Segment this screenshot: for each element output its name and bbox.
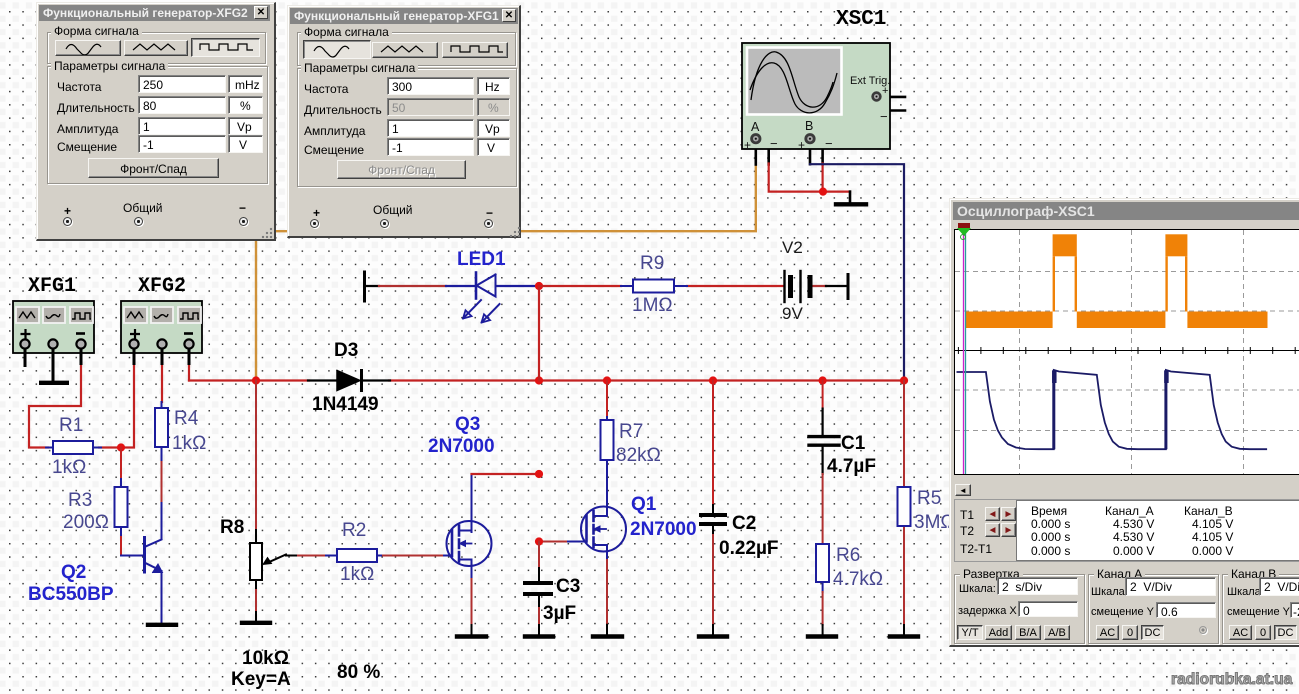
oscilloscope icon XSC1 <box>742 43 890 152</box>
generator symbol XFG2 <box>121 301 202 353</box>
wire: Q2 emitter to ground <box>161 572 163 624</box>
dialog window XFG1 (Функциональный генератор-XFG1) <box>287 5 521 238</box>
wire: R5 bottom to ground <box>903 526 905 625</box>
wire: XSC1 B- pin down to ground net <box>815 139 823 165</box>
battery V2 <box>785 271 811 302</box>
capacitor C3 <box>525 583 551 594</box>
wire: Q1 gate from C3 node <box>539 541 568 543</box>
transistor Q2 (NPN BC550BP) <box>145 538 163 573</box>
ground: Q2 emitter <box>148 623 176 627</box>
wire: R8 bottom to ground <box>255 580 257 590</box>
generator symbol XFG1 <box>13 301 94 353</box>
junction: bus at C1 <box>819 376 827 384</box>
junction: node R1/XFG2+/R3 <box>117 443 125 451</box>
svg-text:Q3: Q3 <box>455 414 480 435</box>
svg-text:1MΩ: 1MΩ <box>632 295 673 316</box>
scope time axis <box>955 347 1299 354</box>
svg-text:R1: R1 <box>59 415 83 436</box>
ground: R5 <box>890 634 918 638</box>
wire: red to LED <box>379 285 446 287</box>
svg-text:R7: R7 <box>619 421 643 442</box>
svg-text:Q2: Q2 <box>61 562 86 583</box>
svg-text:−: − <box>770 136 778 151</box>
watermark radiorubka.at.ua <box>1171 671 1292 689</box>
wire: junction to R9 left (red) <box>539 285 621 287</box>
wire: Q3 drain node <box>471 474 473 532</box>
resistor R3 <box>115 479 128 535</box>
svg-text:XFG2: XFG2 <box>138 275 186 298</box>
svg-text:B: B <box>805 119 813 133</box>
svg-text:1N4149: 1N4149 <box>312 394 379 415</box>
svg-text:Q1: Q1 <box>631 494 657 515</box>
wire: junction down to R3 (red) <box>120 448 122 480</box>
wire: XFG2 minus down to main bus <box>188 364 190 381</box>
svg-text:9V: 9V <box>782 304 803 323</box>
oscilloscope window Осциллограф-XSC1 <box>949 198 1299 647</box>
svg-text:4.7µF: 4.7µF <box>827 456 876 477</box>
wire: R7 bottom to Q1 drain <box>606 460 608 508</box>
svg-text:4.7kΩ: 4.7kΩ <box>833 569 883 590</box>
wire: XFG2 common down to R4 (red) <box>161 364 163 403</box>
wire: C3 column <box>538 542 540 569</box>
ground: R8 <box>242 621 270 625</box>
svg-text:−: − <box>825 136 833 151</box>
svg-text:R5: R5 <box>917 488 941 509</box>
scope plot area <box>954 229 1299 475</box>
svg-text:A: A <box>751 120 760 134</box>
wire: bus end down to R5 <box>903 381 905 488</box>
wire: junction down to bus <box>538 286 540 381</box>
svg-text:1kΩ: 1kΩ <box>52 457 86 478</box>
svg-text:2N7000: 2N7000 <box>630 519 697 540</box>
svg-text:3µF: 3µF <box>543 603 576 624</box>
wire: R1 right to junction to XFG2 plus <box>99 364 134 448</box>
wire: LED cathode lead navy <box>446 285 474 287</box>
diode D3 (1N4149) <box>308 371 390 391</box>
Развертка group <box>954 574 1085 644</box>
svg-text:C1: C1 <box>841 433 866 454</box>
junction: scope ground net <box>819 188 827 196</box>
ground: Q1 source <box>593 634 622 638</box>
junction: bus at C2 <box>709 376 717 384</box>
junction: C3 top / Q1 gate <box>535 537 543 545</box>
wire: LED anode lead navy to junction <box>496 285 536 287</box>
wire: battery right red+black stub with end bar <box>813 285 827 287</box>
wire: R3 bottom to Q2 base <box>120 535 122 556</box>
wire: R9 right to battery V2 <box>687 285 784 287</box>
potentiometer R8 <box>250 530 286 580</box>
wire: bus down to C1 (red then black stub) <box>822 381 824 409</box>
wire: R8 wiper to R2 <box>286 555 298 557</box>
svg-text:C2: C2 <box>732 513 756 534</box>
wire: Q3 gate lead navy <box>444 555 452 557</box>
svg-text:+: + <box>744 138 751 152</box>
cursor readout panel <box>954 499 1299 562</box>
resistor R9 <box>621 280 687 293</box>
resistor R2 <box>326 549 381 562</box>
svg-text:XFG1: XFG1 <box>28 275 76 298</box>
svg-text:R2: R2 <box>342 520 366 541</box>
channel A trace (orange) <box>965 234 1267 328</box>
ground: C3 <box>525 634 553 638</box>
wire: XSC1 A+ pin black stub <box>754 144 757 165</box>
wire: main red bus y=380 <box>189 379 309 381</box>
dialog window XFG2 (Функциональный генератор-XFG2) <box>36 2 276 241</box>
svg-text:2N7000: 2N7000 <box>428 436 495 457</box>
Канал B group <box>1222 574 1299 644</box>
svg-text:200Ω: 200Ω <box>63 512 109 533</box>
transistor Q3 (NMOS 2N7000) <box>447 521 492 566</box>
Канал A group <box>1088 574 1219 644</box>
svg-text:R8: R8 <box>220 517 244 538</box>
wire: Q1 source to ground <box>606 550 608 560</box>
resistor R1 <box>46 441 101 454</box>
svg-text:R9: R9 <box>640 253 664 274</box>
ground: R6 <box>808 634 836 638</box>
transistor Q1 (NMOS 2N7000) <box>581 507 626 552</box>
junction: bus at orange tap / R8 <box>252 376 260 384</box>
resistor R7 <box>601 417 614 462</box>
junction: bus end at R5 / scope B <box>900 376 908 384</box>
wire: R4 bottom to Q2 collector (navy/red segments) <box>161 453 163 462</box>
svg-text:R3: R3 <box>68 490 92 511</box>
svg-text:XSC1: XSC1 <box>836 8 886 31</box>
wire: XFG1 terminal stubs <box>25 349 81 381</box>
resistor R5 <box>898 487 911 526</box>
resistor R4 <box>155 402 168 453</box>
wire: XFG2 terminal stubs <box>134 349 189 365</box>
wire: LED anode T-terminal and stub <box>363 272 366 301</box>
svg-text:1kΩ: 1kΩ <box>340 564 374 585</box>
svg-text:BC550BP: BC550BP <box>28 584 114 605</box>
svg-text:V2: V2 <box>782 238 803 257</box>
resistor R6 <box>816 544 829 582</box>
svg-text:LED1: LED1 <box>457 249 506 270</box>
wire: C2 bottom to ground <box>712 526 714 535</box>
wire: C1 bottom to R6 <box>821 447 823 474</box>
svg-text:1kΩ: 1kΩ <box>172 433 206 454</box>
wire: R6 bottom to ground <box>822 580 824 592</box>
wire: bus down to R7 <box>606 381 608 421</box>
svg-text:−: − <box>880 109 888 124</box>
svg-text:82kΩ: 82kΩ <box>616 445 661 466</box>
ground: Q3 source <box>457 634 486 638</box>
svg-text:D3: D3 <box>334 340 358 361</box>
wire: XSC1 B+ pin navy down to R5 node <box>809 144 812 165</box>
capacitor C1 <box>809 437 839 446</box>
capacitor C2 <box>701 515 725 524</box>
channel B trace (navy) <box>957 370 1268 449</box>
wire: XSC1 A- pin to ground (black then red) <box>761 139 769 165</box>
junction: LED / R9 node <box>535 282 543 290</box>
svg-text:+: + <box>882 85 888 97</box>
wire: bus junction down to R8 (red) <box>255 381 257 531</box>
wire: R2 right to Q3 gate <box>381 555 444 557</box>
wire: bus down to C2 <box>712 381 714 506</box>
junction: bus at R7 <box>603 376 611 384</box>
svg-text:80 %: 80 % <box>337 662 380 683</box>
junction: Q3 drain / C3 column <box>535 470 543 478</box>
svg-text:0.22µF: 0.22µF <box>719 538 779 559</box>
wire: Ext Trig stubs <box>877 97 906 111</box>
LED LED1 <box>463 273 500 323</box>
wire: orange from XSC1 A+ down and left to gate bus node <box>256 164 756 381</box>
svg-text:+: + <box>798 138 805 152</box>
ground: XFG1 common <box>39 381 69 385</box>
svg-text:R6: R6 <box>836 545 860 566</box>
svg-text:Key=A: Key=A <box>231 669 291 690</box>
junction: bus at LED/C3 column <box>535 376 543 384</box>
wire: Q3 source to ground <box>471 565 473 579</box>
wire: XFG1 minus to R1 (red) <box>29 364 81 448</box>
svg-text:C3: C3 <box>556 576 580 597</box>
ground: scope A-/B- <box>836 192 866 205</box>
T1 slider marker <box>958 223 970 228</box>
svg-text:R4: R4 <box>174 408 199 429</box>
svg-text:10kΩ: 10kΩ <box>242 648 289 669</box>
cursor lines <box>963 230 965 474</box>
scrollbar <box>955 484 1299 496</box>
ground: C2 <box>699 634 727 638</box>
